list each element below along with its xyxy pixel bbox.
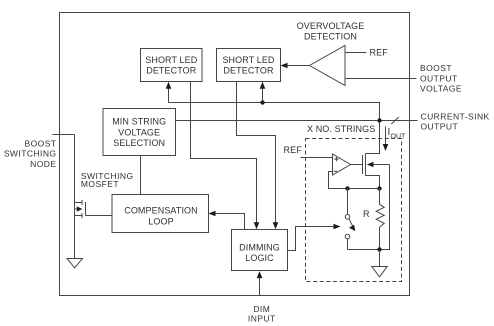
svg-text:DETECTOR: DETECTOR — [146, 66, 197, 76]
transistor Q1 switching MOSFET — [75, 200, 86, 218]
wire: DIM input from bottom border — [259, 277, 261, 296]
transistor Q2 current-sink MOSFET — [363, 123, 390, 189]
svg-text:OUTPUT: OUTPUT — [421, 122, 459, 132]
node junction bottom rail — [377, 247, 381, 251]
svg-text:SWITCHING: SWITCHING — [4, 149, 57, 159]
ground (right, under R) — [372, 267, 387, 277]
svg-text:DETECTION: DETECTION — [304, 32, 357, 42]
wire: down to ground 2 — [379, 250, 381, 267]
wire: gate of Q1 to compensation loop — [86, 215, 113, 217]
wire: boost switching node stub through left border — [53, 134, 75, 136]
wire: line A from short-led arrows across to current-sink junction — [169, 103, 380, 121]
wire: op-amp feedback to source node — [329, 172, 380, 189]
box: COMPENSATION LOOP — [112, 195, 209, 233]
svg-text:REF: REF — [370, 47, 389, 57]
comparator U4 overvoltage detection — [310, 46, 346, 86]
wire: REF into op-amp + input — [301, 157, 333, 159]
svg-text:X NO. STRINGS: X NO. STRINGS — [307, 124, 375, 134]
slash on current-sink output — [391, 117, 399, 124]
wire: body return line down right side to bottom rail — [348, 165, 390, 250]
svg-text:REF: REF — [284, 145, 303, 155]
svg-text:BOOST: BOOST — [24, 138, 56, 148]
svg-text:MOSFET: MOSFET — [81, 179, 119, 189]
svg-text:INPUT: INPUT — [248, 314, 276, 324]
I OUT current arrow — [385, 127, 387, 147]
wire: dimming logic to compensation loop arrow — [214, 214, 245, 230]
svg-text:BOOST: BOOST — [420, 63, 452, 73]
node junction on line B — [377, 118, 381, 122]
node junction on line A — [260, 100, 264, 104]
arrow into right short-led detector — [262, 87, 264, 103]
svg-text:MIN STRING: MIN STRING — [112, 117, 166, 127]
outer IC boundary box — [60, 13, 410, 296]
wire: left short-led detector down to dimming logic — [191, 82, 257, 225]
node junction (switch tap) — [345, 186, 349, 190]
svg-text:LOOP: LOOP — [148, 216, 173, 226]
svg-text:DETECTOR: DETECTOR — [223, 66, 274, 76]
svg-text:SHORT LED: SHORT LED — [222, 55, 274, 65]
node junction (resistor top) — [377, 186, 381, 190]
box: SHORT LED DETECTOR (right) U3 — [217, 49, 281, 82]
arrow into left short-led detector — [168, 87, 170, 103]
svg-text:NODE: NODE — [30, 159, 56, 169]
box: DIMMING LOGIC — [232, 230, 288, 271]
svg-text:SELECTION: SELECTION — [113, 138, 165, 148]
switch S1 — [345, 189, 355, 250]
wire: op-amp output to gate of Q2 — [351, 164, 363, 166]
svg-text:OUTPUT: OUTPUT — [420, 73, 458, 83]
wire: REF into comparator — [345, 52, 367, 54]
svg-text:LOGIC: LOGIC — [245, 253, 274, 263]
svg-text:CURRENT-SINK: CURRENT-SINK — [421, 111, 490, 121]
ground (left, under switching MOSFET) — [67, 259, 83, 268]
svg-text:DIM: DIM — [253, 304, 270, 314]
svg-text:SHORT LED: SHORT LED — [145, 55, 197, 65]
box: SHORT LED DETECTOR (left) U2 — [141, 49, 203, 82]
wire: dimming logic output to switch — [288, 227, 336, 251]
wire: current-sink line B from min string box to border — [176, 120, 418, 122]
wire: right short-led detector down to dimming logic — [237, 82, 276, 225]
svg-text:OUT: OUT — [391, 134, 407, 141]
svg-text:R: R — [363, 209, 370, 219]
wire: left vertical down to ground — [74, 135, 76, 259]
svg-text:COMPENSATION: COMPENSATION — [124, 206, 198, 216]
dashed box X NO. STRINGS — [306, 139, 402, 282]
wire: min string box down to compensation loop — [140, 156, 142, 195]
resistor R — [376, 189, 384, 250]
svg-text:VOLTAGE: VOLTAGE — [118, 127, 160, 137]
svg-text:DIMMING: DIMMING — [239, 242, 280, 252]
wire: boost output voltage line through border — [345, 78, 417, 80]
wire: comparator output to right short-led detector — [286, 65, 310, 67]
box: MIN STRING VOLTAGE SELECTION — [103, 109, 176, 156]
svg-text:VOLTAGE: VOLTAGE — [420, 84, 462, 94]
op-amp U5 — [333, 154, 351, 175]
svg-text:OVERVOLTAGE: OVERVOLTAGE — [297, 21, 365, 31]
